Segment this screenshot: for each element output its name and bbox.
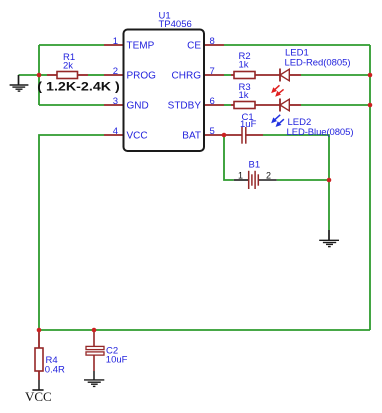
wire pin1 TEMP <box>39 44 104 46</box>
pin 7 stub <box>204 74 224 76</box>
svg-text:2k: 2k <box>63 61 73 72</box>
wire net VCC left vertical pin4 to bottom rail <box>39 135 104 330</box>
svg-text:STDBY: STDBY <box>168 101 202 112</box>
wire pin7 to R2 <box>224 74 231 76</box>
svg-text:PROG: PROG <box>127 71 157 82</box>
svg-text:0.4R: 0.4R <box>45 365 65 376</box>
svg-text:VCC: VCC <box>127 131 148 142</box>
junction node rail/C2 <box>92 328 97 333</box>
pin 2 stub <box>104 74 124 76</box>
wire node PROG to R1 <box>39 74 47 76</box>
pin 1 stub <box>104 44 124 46</box>
pin 8 stub <box>204 44 224 46</box>
wire R1 to pin2 <box>88 74 104 76</box>
svg-text:CHRG: CHRG <box>172 71 202 82</box>
junction node battery/ground <box>327 178 332 183</box>
capacitor C1 <box>224 127 263 144</box>
svg-text:7: 7 <box>210 66 215 77</box>
IC U1 TP4056 <box>124 30 205 152</box>
wire left vertical pins 1-3 <box>38 45 40 105</box>
battery B1 <box>234 171 277 189</box>
svg-text:6: 6 <box>210 96 215 107</box>
svg-text:1: 1 <box>238 171 243 181</box>
wire C1 to battery rail corner <box>263 135 329 230</box>
svg-text:TEMP: TEMP <box>127 41 155 52</box>
wire right vertical CE/LED/VCC rail <box>369 45 371 330</box>
junction node LED2/rail <box>368 103 373 108</box>
LED2 diode <box>280 99 301 112</box>
wire LED1 to right rail <box>301 74 370 76</box>
svg-text:1uF: 1uF <box>240 119 257 130</box>
junction node LED1/rail <box>368 73 373 78</box>
wire battery plus to right <box>277 179 329 181</box>
wire bottom VCC rail <box>39 329 370 331</box>
wire LED2 to right rail <box>301 104 370 106</box>
ground left at PROG <box>10 75 29 91</box>
svg-text:3: 3 <box>113 96 118 107</box>
svg-text:8: 8 <box>210 36 215 47</box>
ground right below battery <box>319 230 339 247</box>
svg-text:10uF: 10uF <box>106 355 128 366</box>
pin 5 stub <box>204 134 224 136</box>
svg-text:CE: CE <box>187 41 201 52</box>
svg-text:LED-Red(0805): LED-Red(0805) <box>285 58 351 69</box>
svg-text:4: 4 <box>113 126 118 137</box>
wire pin3 GND <box>39 104 104 106</box>
svg-text:B1: B1 <box>249 160 261 171</box>
svg-text:( 1.2K-2.4K ): ( 1.2K-2.4K ) <box>37 80 120 94</box>
resistor R4 <box>35 330 43 390</box>
svg-text:1k: 1k <box>239 60 249 71</box>
svg-text:TP4056: TP4056 <box>159 19 192 30</box>
VCC power port <box>25 389 52 404</box>
svg-text:LED-Blue(0805): LED-Blue(0805) <box>287 127 354 138</box>
resistor R2 <box>231 72 280 79</box>
svg-text:1k: 1k <box>239 90 249 101</box>
LED2 arrows <box>272 115 284 126</box>
ground under C2 <box>84 380 104 387</box>
capacitor C2 <box>86 330 104 380</box>
pin 4 stub <box>104 134 124 136</box>
junction node PROG/R1 <box>37 73 42 78</box>
svg-text:GND: GND <box>127 101 149 112</box>
wire BAT node down to battery <box>224 135 234 180</box>
svg-text:2: 2 <box>266 171 271 181</box>
wire pin6 to R3 <box>224 104 231 106</box>
svg-text:VCC: VCC <box>25 389 52 404</box>
svg-text:2: 2 <box>113 66 118 77</box>
svg-text:BAT: BAT <box>182 131 201 142</box>
junction node rail/R4 <box>37 328 42 333</box>
wire CE pin8 to right rail <box>224 44 370 46</box>
LED1 diode <box>280 69 301 82</box>
pin 6 stub <box>204 104 224 106</box>
junction node BAT/C1 <box>222 133 227 138</box>
resistor R1 <box>47 72 88 79</box>
svg-text:5: 5 <box>210 126 215 137</box>
svg-text:1: 1 <box>113 36 118 47</box>
wire ground to PROG node <box>19 74 40 76</box>
resistor R3 <box>231 102 280 109</box>
LED1 arrows <box>272 85 284 96</box>
pin 3 stub <box>104 104 124 106</box>
